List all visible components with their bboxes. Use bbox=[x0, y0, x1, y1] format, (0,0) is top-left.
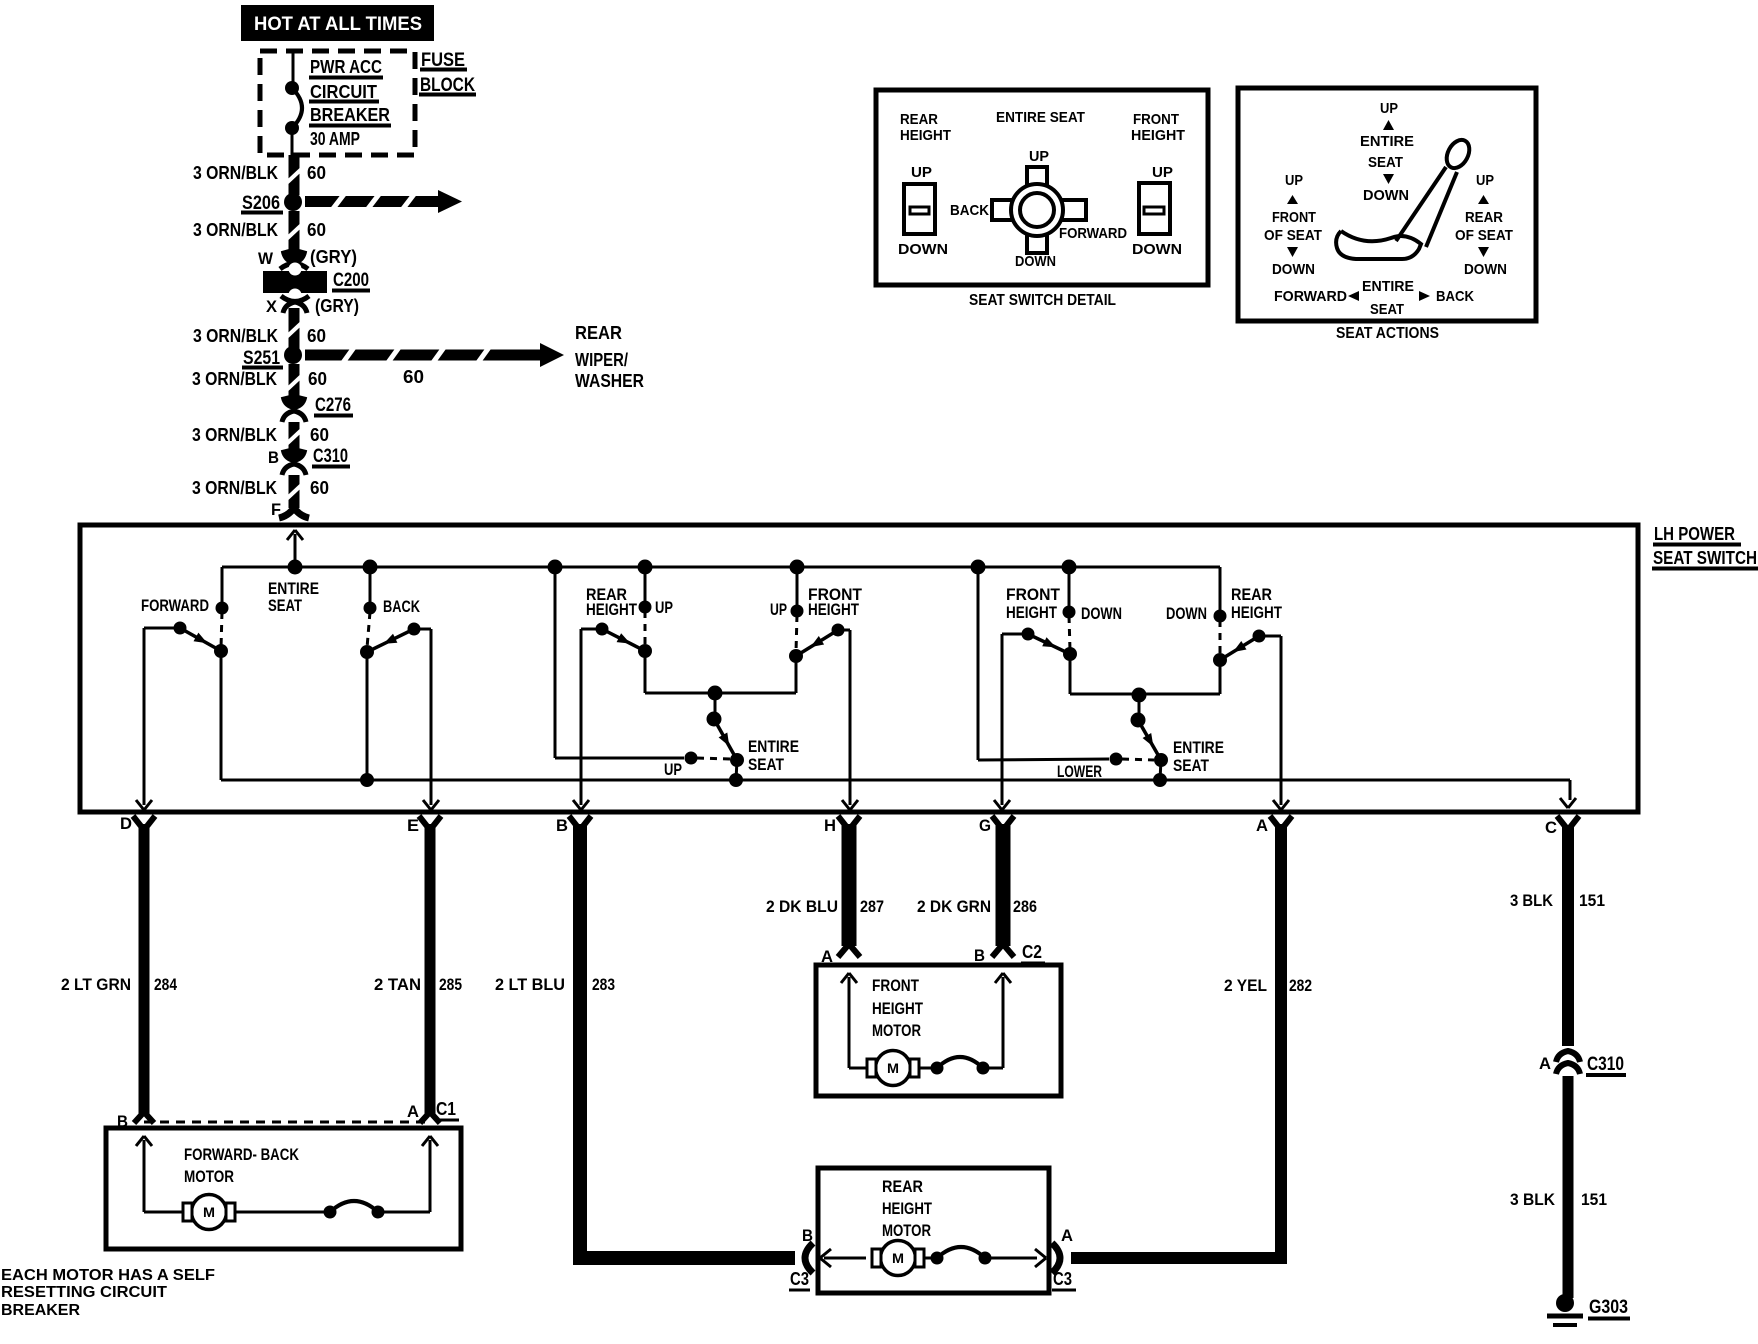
svg-text:2 LT GRN: 2 LT GRN bbox=[61, 975, 131, 994]
svg-text:M: M bbox=[892, 1250, 904, 1266]
svg-text:284: 284 bbox=[154, 975, 177, 994]
svg-text:FRONT: FRONT bbox=[1006, 585, 1061, 604]
svg-text:WASHER: WASHER bbox=[575, 371, 644, 391]
svg-text:EACH MOTOR HAS A SELF: EACH MOTOR HAS A SELF bbox=[1, 1267, 215, 1284]
svg-text:BACK: BACK bbox=[950, 202, 989, 219]
svg-text:C200: C200 bbox=[333, 270, 369, 291]
svg-text:DOWN: DOWN bbox=[1081, 604, 1122, 623]
svg-text:ENTIRE: ENTIRE bbox=[1173, 738, 1224, 757]
svg-text:3 ORN/BLK: 3 ORN/BLK bbox=[193, 326, 278, 346]
svg-text:DOWN: DOWN bbox=[1363, 187, 1409, 204]
svg-text:60: 60 bbox=[307, 163, 326, 183]
svg-text:SEAT SWITCH: SEAT SWITCH bbox=[1653, 548, 1757, 568]
svg-text:REAR: REAR bbox=[1465, 209, 1503, 226]
svg-text:UP: UP bbox=[1029, 148, 1049, 165]
svg-text:(GRY): (GRY) bbox=[310, 247, 357, 267]
svg-text:DOWN: DOWN bbox=[1132, 241, 1182, 258]
svg-text:OF SEAT: OF SEAT bbox=[1264, 227, 1322, 244]
svg-text:151: 151 bbox=[1581, 1190, 1607, 1209]
svg-text:C2: C2 bbox=[1022, 942, 1042, 962]
svg-text:X: X bbox=[266, 297, 278, 316]
svg-text:C: C bbox=[1545, 818, 1557, 837]
svg-text:E: E bbox=[407, 816, 419, 835]
svg-text:DOWN: DOWN bbox=[898, 241, 948, 258]
svg-text:UP: UP bbox=[655, 598, 673, 617]
svg-text:REAR: REAR bbox=[575, 323, 622, 343]
svg-text:A: A bbox=[1539, 1054, 1551, 1073]
svg-text:DOWN: DOWN bbox=[1272, 261, 1315, 278]
svg-text:3 ORN/BLK: 3 ORN/BLK bbox=[192, 369, 277, 389]
svg-text:30 AMP: 30 AMP bbox=[310, 129, 360, 149]
svg-text:60: 60 bbox=[310, 425, 329, 445]
svg-text:BREAKER: BREAKER bbox=[1, 1302, 80, 1319]
svg-text:285: 285 bbox=[439, 975, 462, 994]
svg-text:LH POWER: LH POWER bbox=[1654, 524, 1735, 544]
svg-text:UP: UP bbox=[1380, 100, 1398, 117]
svg-text:FORWARD: FORWARD bbox=[1274, 288, 1347, 305]
svg-text:FORWARD- BACK: FORWARD- BACK bbox=[184, 1145, 300, 1164]
svg-text:C310: C310 bbox=[1587, 1054, 1624, 1075]
svg-text:FORWARD: FORWARD bbox=[1059, 225, 1127, 242]
svg-text:BREAKER: BREAKER bbox=[310, 105, 390, 125]
svg-text:REAR: REAR bbox=[900, 111, 938, 128]
svg-text:3 BLK: 3 BLK bbox=[1510, 891, 1554, 910]
svg-text:ENTIRE: ENTIRE bbox=[1360, 133, 1414, 150]
svg-text:HEIGHT: HEIGHT bbox=[1006, 603, 1057, 622]
svg-text:FRONT: FRONT bbox=[872, 976, 919, 995]
svg-text:RESETTING CIRCUIT: RESETTING CIRCUIT bbox=[1, 1284, 167, 1301]
svg-text:60: 60 bbox=[307, 326, 326, 346]
svg-text:3 ORN/BLK: 3 ORN/BLK bbox=[192, 425, 277, 445]
svg-text:C310: C310 bbox=[313, 446, 348, 467]
svg-text:3 ORN/BLK: 3 ORN/BLK bbox=[193, 163, 278, 183]
svg-text:2 DK GRN: 2 DK GRN bbox=[917, 897, 991, 916]
svg-text:SEAT: SEAT bbox=[1368, 154, 1403, 171]
svg-text:HEIGHT: HEIGHT bbox=[872, 999, 923, 1018]
svg-text:OF SEAT: OF SEAT bbox=[1455, 227, 1513, 244]
svg-text:FRONT: FRONT bbox=[1133, 111, 1179, 128]
svg-text:3 ORN/BLK: 3 ORN/BLK bbox=[193, 220, 278, 240]
svg-text:SEAT: SEAT bbox=[1370, 301, 1404, 318]
svg-text:UP: UP bbox=[664, 760, 682, 779]
svg-text:HEIGHT: HEIGHT bbox=[882, 1199, 932, 1218]
svg-text:G303: G303 bbox=[1589, 1297, 1628, 1318]
svg-text:FRONT: FRONT bbox=[1272, 209, 1316, 226]
svg-text:286: 286 bbox=[1013, 897, 1037, 916]
svg-text:UP: UP bbox=[1152, 164, 1173, 181]
svg-text:BACK: BACK bbox=[383, 597, 421, 616]
svg-text:ENTIRE: ENTIRE bbox=[1362, 278, 1414, 295]
svg-text:ENTIRE SEAT: ENTIRE SEAT bbox=[996, 109, 1085, 126]
svg-text:MOTOR: MOTOR bbox=[872, 1021, 921, 1040]
svg-text:2 TAN: 2 TAN bbox=[374, 975, 421, 994]
svg-text:H: H bbox=[824, 816, 836, 835]
svg-text:HEIGHT: HEIGHT bbox=[1131, 127, 1185, 144]
svg-text:C276: C276 bbox=[315, 395, 351, 416]
svg-text:REAR: REAR bbox=[1231, 585, 1272, 604]
svg-text:HEIGHT: HEIGHT bbox=[808, 600, 859, 619]
svg-text:A: A bbox=[407, 1102, 419, 1121]
svg-text:BACK: BACK bbox=[1436, 288, 1474, 305]
svg-text:WIPER/: WIPER/ bbox=[575, 350, 628, 370]
svg-text:A: A bbox=[1256, 816, 1268, 835]
svg-text:HEIGHT: HEIGHT bbox=[586, 600, 637, 619]
svg-text:C1: C1 bbox=[436, 1099, 456, 1119]
svg-text:G: G bbox=[979, 816, 991, 835]
svg-text:2 YEL: 2 YEL bbox=[1224, 976, 1267, 995]
svg-text:REAR: REAR bbox=[882, 1177, 923, 1196]
svg-text:DOWN: DOWN bbox=[1015, 253, 1056, 270]
svg-text:2 DK BLU: 2 DK BLU bbox=[766, 897, 838, 916]
svg-text:60: 60 bbox=[403, 367, 424, 387]
svg-text:W: W bbox=[258, 249, 274, 268]
svg-text:FORWARD: FORWARD bbox=[141, 596, 209, 615]
svg-text:SEAT ACTIONS: SEAT ACTIONS bbox=[1336, 325, 1439, 342]
svg-text:M: M bbox=[203, 1204, 215, 1220]
svg-text:D: D bbox=[120, 814, 132, 833]
svg-text:3 BLK: 3 BLK bbox=[1510, 1190, 1556, 1209]
svg-text:MOTOR: MOTOR bbox=[882, 1221, 931, 1240]
svg-text:MOTOR: MOTOR bbox=[184, 1167, 234, 1186]
svg-text:HOT AT ALL TIMES: HOT AT ALL TIMES bbox=[254, 14, 422, 35]
svg-text:60: 60 bbox=[310, 478, 329, 498]
svg-text:M: M bbox=[887, 1060, 899, 1076]
svg-text:2 LT BLU: 2 LT BLU bbox=[495, 975, 565, 994]
svg-text:HEIGHT: HEIGHT bbox=[900, 127, 951, 144]
svg-text:283: 283 bbox=[592, 975, 615, 994]
svg-text:A: A bbox=[1061, 1226, 1073, 1245]
svg-text:B: B bbox=[974, 946, 985, 965]
svg-text:CIRCUIT: CIRCUIT bbox=[310, 82, 377, 102]
svg-text:282: 282 bbox=[1289, 976, 1312, 995]
svg-text:UP: UP bbox=[770, 600, 787, 619]
svg-text:SEAT SWITCH DETAIL: SEAT SWITCH DETAIL bbox=[969, 292, 1116, 309]
svg-text:C3: C3 bbox=[790, 1269, 809, 1289]
svg-text:UP: UP bbox=[1285, 172, 1303, 189]
svg-text:SEAT: SEAT bbox=[748, 755, 785, 774]
svg-text:B: B bbox=[556, 816, 568, 835]
svg-text:287: 287 bbox=[860, 897, 884, 916]
svg-text:60: 60 bbox=[308, 369, 327, 389]
svg-text:B: B bbox=[268, 448, 279, 467]
svg-text:PWR ACC: PWR ACC bbox=[310, 57, 382, 77]
svg-text:UP: UP bbox=[911, 164, 932, 181]
svg-text:DOWN: DOWN bbox=[1464, 261, 1507, 278]
svg-text:60: 60 bbox=[307, 220, 326, 240]
svg-text:DOWN: DOWN bbox=[1166, 604, 1207, 623]
svg-text:151: 151 bbox=[1579, 891, 1605, 910]
svg-text:HEIGHT: HEIGHT bbox=[1231, 603, 1282, 622]
svg-text:LOWER: LOWER bbox=[1057, 762, 1102, 781]
svg-text:(GRY): (GRY) bbox=[315, 296, 359, 316]
svg-text:3 ORN/BLK: 3 ORN/BLK bbox=[192, 478, 277, 498]
svg-text:UP: UP bbox=[1476, 172, 1494, 189]
svg-text:SEAT: SEAT bbox=[268, 596, 302, 615]
svg-text:SEAT: SEAT bbox=[1173, 756, 1210, 775]
svg-text:ENTIRE: ENTIRE bbox=[748, 737, 799, 756]
